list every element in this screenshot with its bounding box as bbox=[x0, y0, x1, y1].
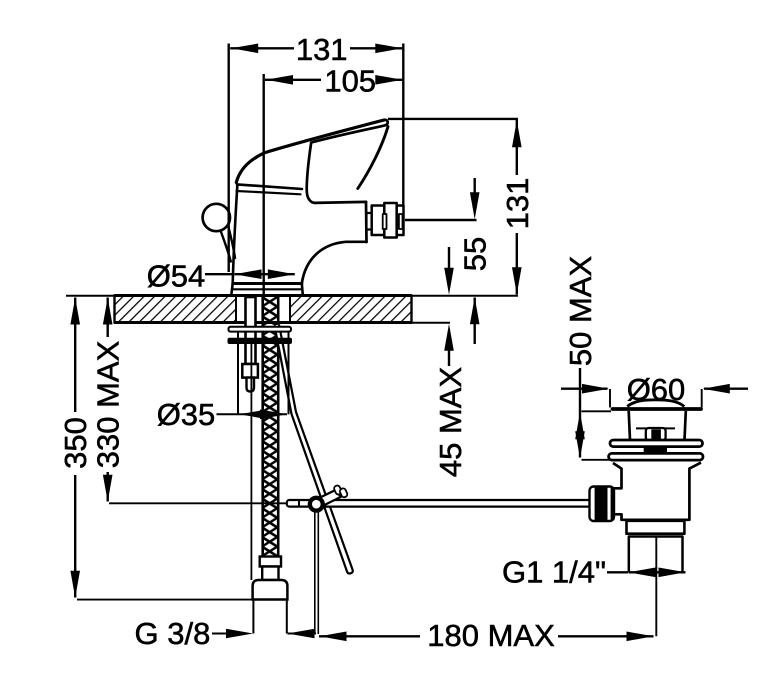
clamping bar black bbox=[228, 338, 293, 344]
svg-text:G 3/8: G 3/8 bbox=[134, 616, 210, 651]
locknut bbox=[627, 521, 685, 534]
svg-text:131: 131 bbox=[500, 178, 535, 230]
crossbar seat line bbox=[636, 427, 675, 429]
vertical link rod to dim line bbox=[315, 512, 319, 634]
dimension 105 top bbox=[264, 74, 403, 295]
svg-text:350: 350 bbox=[58, 417, 93, 469]
dimension 131 right vertical bbox=[388, 119, 518, 295]
plug brim bbox=[613, 407, 702, 411]
G3/8 extension lines bbox=[252, 600, 254, 634]
svg-text:105: 105 bbox=[324, 64, 376, 99]
dimension O54 base bbox=[205, 273, 295, 275]
counter right edge bbox=[410, 295, 412, 324]
aerator ring B bbox=[384, 203, 396, 238]
pop-up linkage horizontal rod bbox=[287, 500, 591, 507]
dimension 45 MAX deck thickness bbox=[448, 247, 450, 366]
clamp thumbscrews bbox=[333, 485, 342, 496]
pop-up knob ball bbox=[203, 204, 230, 231]
lever rear edge bbox=[358, 127, 388, 189]
lever top plate inner edge and front face bbox=[307, 120, 388, 203]
knob stem bbox=[221, 231, 231, 262]
pivot clamp bbox=[308, 496, 325, 513]
dimension O35 bbox=[217, 331, 289, 414]
top flange bbox=[610, 440, 703, 447]
svg-text:Ø60: Ø60 bbox=[627, 372, 686, 407]
threaded mounting stud bbox=[242, 297, 258, 392]
waste body bbox=[613, 463, 701, 520]
svg-text:50 MAX: 50 MAX bbox=[563, 256, 598, 367]
tailpipe bbox=[629, 537, 683, 573]
hose end collar 2 bbox=[262, 567, 278, 581]
dimension G 3/8 bbox=[212, 633, 227, 635]
aerator ring A bbox=[372, 206, 385, 236]
dimension 131 top bbox=[229, 44, 404, 273]
mounting hole edges bbox=[235, 296, 237, 322]
dimension 350 left bbox=[75, 298, 252, 600]
svg-text:180 MAX: 180 MAX bbox=[427, 618, 555, 653]
inter-flange link block bbox=[644, 447, 667, 454]
plug dome bbox=[627, 400, 684, 407]
lower flange bbox=[609, 453, 703, 460]
dimension G1 1/4 bbox=[607, 571, 686, 573]
dimension 330 MAX bbox=[108, 298, 286, 504]
svg-text:Ø35: Ø35 bbox=[157, 397, 216, 432]
dimension 180 MAX bbox=[319, 537, 656, 636]
base flange bbox=[233, 282, 302, 285]
pop-up waste drain assembly bbox=[590, 400, 704, 573]
svg-text:Ø54: Ø54 bbox=[147, 259, 206, 294]
dimension 55 spout height bbox=[405, 178, 477, 344]
spout underside curve bbox=[302, 242, 367, 284]
svg-text:55: 55 bbox=[458, 237, 493, 271]
aerator groove marks bbox=[383, 214, 387, 229]
svg-text:45 MAX: 45 MAX bbox=[433, 367, 468, 478]
body left edge bbox=[233, 186, 238, 284]
cartridge collar lines bbox=[237, 184, 302, 189]
braided supply hose bbox=[263, 297, 279, 556]
counter top surface line bbox=[114, 294, 412, 297]
rod end cap divider bbox=[298, 500, 300, 507]
svg-text:G1 1/4": G1 1/4" bbox=[502, 555, 606, 590]
lever handle top outer curve bbox=[236, 120, 384, 183]
aerator cap C bbox=[397, 206, 404, 236]
counter left edge bbox=[113, 295, 115, 324]
knurled rod knob bbox=[590, 487, 615, 522]
G3/8 nut bbox=[253, 580, 288, 600]
aerator connector bbox=[367, 213, 372, 230]
svg-text:330 MAX: 330 MAX bbox=[91, 340, 126, 468]
countertop slab hatched bbox=[66, 295, 518, 324]
diagonal lift rod bbox=[275, 325, 353, 574]
neck sides bbox=[629, 411, 686, 440]
rear hose edge line bbox=[250, 344, 252, 580]
stud tip bbox=[247, 378, 255, 392]
faucet single-lever mixer body bbox=[203, 120, 404, 295]
spout top edge bbox=[315, 202, 366, 203]
svg-text:131: 131 bbox=[296, 32, 348, 67]
rod clamp arm bbox=[314, 490, 341, 509]
crossbar clevis bbox=[646, 428, 666, 440]
dimension O60 bbox=[561, 389, 748, 408]
dimension 50 MAX bbox=[580, 368, 611, 460]
spout end edge bbox=[365, 202, 368, 242]
horseshoe washer plate bbox=[229, 327, 292, 332]
counter bottom line bbox=[114, 321, 412, 324]
mounting nut bbox=[242, 364, 258, 378]
hose end collar bbox=[260, 557, 281, 567]
